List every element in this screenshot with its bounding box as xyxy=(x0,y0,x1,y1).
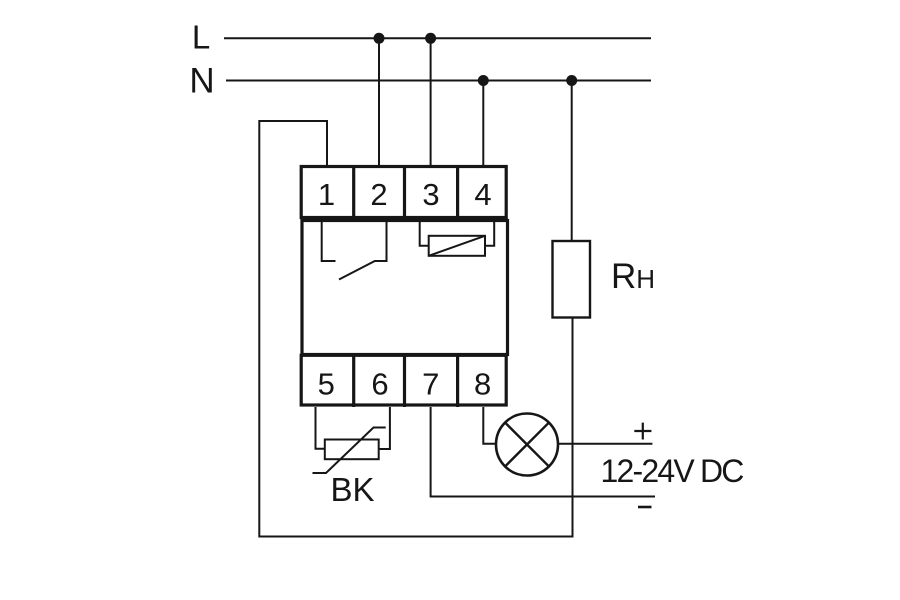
svg-text:7: 7 xyxy=(422,367,439,402)
svg-text:L: L xyxy=(192,19,210,56)
svg-text:6: 6 xyxy=(371,367,388,402)
svg-text:2: 2 xyxy=(370,177,387,212)
svg-text:1: 1 xyxy=(318,177,335,212)
svg-text:N: N xyxy=(189,62,214,101)
svg-text:BK: BK xyxy=(331,471,375,508)
svg-text:5: 5 xyxy=(318,367,335,402)
svg-text:8: 8 xyxy=(474,367,491,402)
svg-text:12-24V DC: 12-24V DC xyxy=(601,453,744,489)
svg-text:4: 4 xyxy=(474,177,491,212)
svg-text:3: 3 xyxy=(422,177,439,212)
